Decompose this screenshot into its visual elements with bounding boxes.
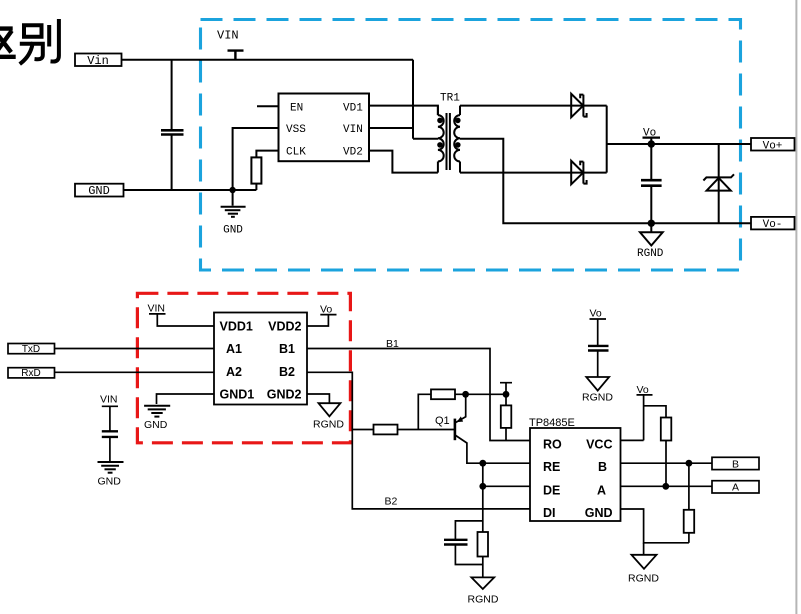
node A junction xyxy=(662,483,669,490)
capacitor C2 output xyxy=(650,144,652,179)
resistor R4 pullup RO xyxy=(505,394,507,405)
wire GND1 xyxy=(157,394,215,404)
svg-text:A: A xyxy=(597,483,606,497)
node B junction xyxy=(686,460,693,467)
ground RGND top xyxy=(650,223,652,232)
svg-text:A1: A1 xyxy=(226,342,242,356)
port Vin xyxy=(75,54,122,67)
wire GND rail xyxy=(124,189,257,191)
svg-text:B: B xyxy=(598,460,607,474)
wire A1 xyxy=(55,348,215,350)
svg-text:VIN: VIN xyxy=(343,124,363,136)
ground GND cap xyxy=(98,462,124,473)
port Vo+ xyxy=(751,138,795,151)
wire B1 to RO xyxy=(307,349,530,441)
wire RE-DE vertical xyxy=(482,463,484,532)
ground GND1 symbol xyxy=(144,406,170,417)
svg-text:Q1: Q1 xyxy=(435,415,450,427)
red dashed isolator box xyxy=(137,293,350,443)
wire Vin rail xyxy=(122,59,414,61)
capacitor C5 xyxy=(588,345,609,347)
wire Vin vertical drop xyxy=(412,60,414,139)
page right edge line xyxy=(795,0,797,614)
svg-text:Vo-: Vo- xyxy=(763,219,783,231)
port GND xyxy=(75,184,124,197)
zener D3 xyxy=(718,144,720,223)
svg-text:RGND: RGND xyxy=(637,248,664,260)
node collector junction xyxy=(462,391,469,398)
wire secondary center to bottom rail xyxy=(460,139,751,224)
svg-text:GND: GND xyxy=(144,419,168,431)
capacitor C4 xyxy=(455,521,482,539)
port TxD xyxy=(8,344,55,354)
wire A out xyxy=(621,485,713,487)
port Vo- xyxy=(751,217,795,230)
wire VD1 to transformer xyxy=(369,106,438,116)
ground RGND isolator xyxy=(319,403,341,416)
svg-text:RGND: RGND xyxy=(313,419,344,431)
svg-text:VIN: VIN xyxy=(100,394,118,406)
svg-text:VIN: VIN xyxy=(148,303,166,315)
svg-text:RO: RO xyxy=(543,438,562,452)
svg-text:GND2: GND2 xyxy=(267,387,302,401)
op IC U1 box xyxy=(279,94,370,162)
wire A2 xyxy=(55,371,215,373)
digital isolator U2 box xyxy=(214,313,307,405)
svg-text:VDD1: VDD1 xyxy=(220,319,253,333)
port A xyxy=(712,481,759,493)
wire Vo rail xyxy=(607,143,751,145)
svg-text:RGND: RGND xyxy=(468,594,499,606)
svg-text:B2: B2 xyxy=(279,365,295,379)
svg-text:RxD: RxD xyxy=(21,368,40,379)
svg-text:DI: DI xyxy=(543,506,556,520)
node GND junction xyxy=(229,187,235,193)
port RxD xyxy=(8,368,55,378)
svg-text:VD1: VD1 xyxy=(343,103,363,115)
wire center tap primary xyxy=(413,138,438,140)
wire VCC xyxy=(621,439,644,441)
wire VIN pin to Vin rail xyxy=(369,127,413,129)
svg-text:DE: DE xyxy=(543,483,560,497)
svg-text:A: A xyxy=(732,482,739,494)
svg-text:Vin: Vin xyxy=(87,54,109,68)
svg-text:B: B xyxy=(732,458,739,470)
capacitor C1 input xyxy=(171,60,173,130)
ground RGND right xyxy=(643,543,645,555)
resistor R2 base xyxy=(352,429,373,431)
node DE junction xyxy=(479,483,486,490)
svg-text:GND: GND xyxy=(223,225,243,237)
svg-text:VSS: VSS xyxy=(286,124,306,136)
svg-text:TR1: TR1 xyxy=(440,93,460,105)
svg-text:GND: GND xyxy=(585,506,613,520)
wire VD2 to transformer xyxy=(369,151,438,173)
port B xyxy=(712,457,759,469)
wire diode join vertical xyxy=(606,106,608,173)
wire DE xyxy=(483,485,530,487)
power VIN bar xyxy=(228,51,244,60)
svg-text:CLK: CLK xyxy=(286,147,306,159)
svg-text:VDD2: VDD2 xyxy=(268,319,301,333)
wire RE xyxy=(483,462,530,464)
svg-text:VIN: VIN xyxy=(217,29,239,43)
svg-text:GND: GND xyxy=(88,184,110,198)
svg-text:Vo: Vo xyxy=(590,308,602,320)
wire GND2 xyxy=(307,394,329,403)
svg-text:TxD: TxD xyxy=(22,344,40,355)
svg-text:GND1: GND1 xyxy=(220,387,255,401)
wire EN stub xyxy=(257,105,279,107)
ground GND earth symbol xyxy=(221,190,246,217)
wire secondary bottom xyxy=(460,172,583,174)
node RE junction xyxy=(479,460,486,467)
blue dashed isolation box xyxy=(201,20,741,271)
svg-text:Vo+: Vo+ xyxy=(763,140,783,152)
svg-text:B1: B1 xyxy=(386,338,399,350)
diode D1 schottky xyxy=(571,94,586,118)
svg-text:VCC: VCC xyxy=(586,438,612,452)
svg-text:B2: B2 xyxy=(385,496,398,508)
capacitor C3 xyxy=(102,430,118,432)
heading text 区别 (partial, drawn as strokes) xyxy=(0,29,14,57)
svg-text:VD2: VD2 xyxy=(343,147,363,159)
resistor R6 pullup A xyxy=(644,406,666,418)
svg-text:Vo: Vo xyxy=(320,304,332,316)
resistor R7 pulldown B xyxy=(688,463,690,510)
wire B2 to DI xyxy=(307,372,530,509)
svg-text:B1: B1 xyxy=(279,342,295,356)
svg-text:EN: EN xyxy=(290,103,303,115)
wire B out xyxy=(621,462,713,464)
wire VSS to gnd xyxy=(233,128,279,190)
resistor R1 (CLK) xyxy=(251,157,261,183)
resistor R5 xyxy=(478,532,489,557)
svg-text:RE: RE xyxy=(543,460,560,474)
node bottom junction xyxy=(648,220,655,227)
svg-text:RGND: RGND xyxy=(582,392,613,404)
wire CLK to resistor xyxy=(256,151,278,158)
svg-text:GND: GND xyxy=(98,476,122,488)
wire secondary top xyxy=(460,105,583,107)
svg-text:RGND: RGND xyxy=(628,573,659,585)
node Vo junction xyxy=(648,140,655,147)
svg-text:A2: A2 xyxy=(226,365,242,379)
node pullup junction xyxy=(503,391,510,398)
resistor R3 feedback xyxy=(418,394,431,429)
ground RGND cap xyxy=(586,377,609,391)
ground RGND q1 xyxy=(471,577,494,589)
diode D2 schottky xyxy=(571,161,586,185)
wire GND pin xyxy=(621,509,689,543)
power bar unnamed xyxy=(500,383,512,395)
